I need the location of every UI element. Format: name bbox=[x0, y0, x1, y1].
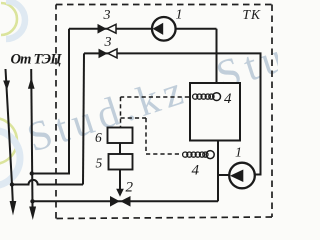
svg-text:От ТЭЦ: От ТЭЦ bbox=[11, 52, 63, 68]
svg-text:1: 1 bbox=[235, 146, 242, 161]
svg-text:2: 2 bbox=[126, 180, 134, 196]
svg-text:ТК: ТК bbox=[243, 7, 262, 22]
svg-text:6: 6 bbox=[95, 130, 102, 145]
svg-text:4: 4 bbox=[192, 163, 200, 179]
svg-text:5: 5 bbox=[96, 156, 103, 171]
svg-text:4: 4 bbox=[224, 91, 232, 107]
svg-text:3: 3 bbox=[104, 35, 112, 50]
svg-text:3: 3 bbox=[103, 8, 111, 23]
svg-text:1: 1 bbox=[176, 8, 183, 23]
